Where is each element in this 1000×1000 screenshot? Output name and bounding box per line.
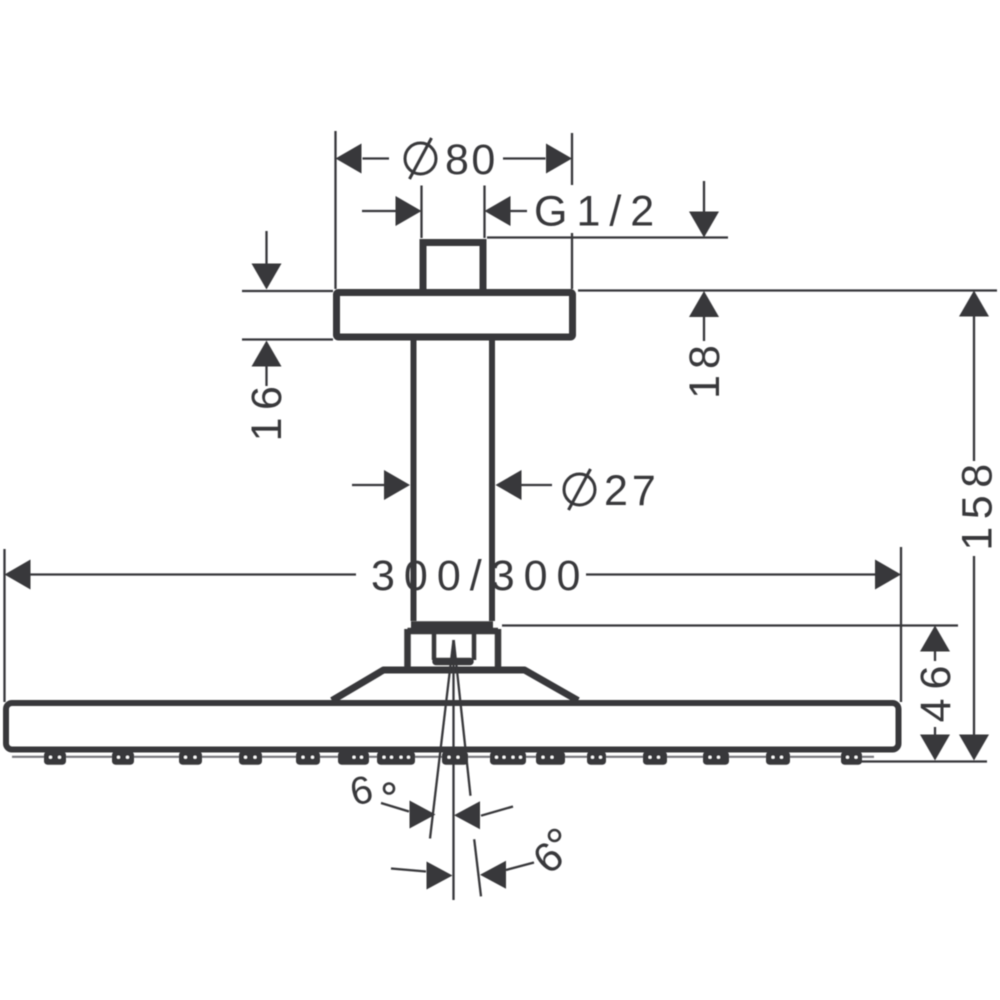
dim 18 arrow bottom: [689, 291, 719, 317]
dim 46 arrow top: [920, 626, 950, 652]
svg-text:46: 46: [912, 657, 960, 723]
dim diam80 arrow left: [336, 144, 362, 174]
svg-text:18: 18: [681, 339, 729, 399]
spray axis center line: [452, 640, 454, 900]
6 deg upper arrow left: [410, 801, 436, 829]
dim 16 arrow bottom: [252, 341, 282, 367]
dim 16 ext lines: [242, 290, 333, 292]
dim 16 arrow top: [252, 264, 282, 290]
dim 158 line: [973, 316, 975, 461]
svg-text:16: 16: [243, 379, 291, 442]
dim 46 arrow bottom: [920, 735, 950, 761]
nozzle rail: [12, 756, 874, 758]
pipe left wall: [411, 340, 417, 621]
dim 158 arrow bottom: [959, 735, 989, 761]
nozzle 6: [338, 752, 369, 765]
dimension graphics: [5, 131, 998, 900]
6 deg upper arrow right: [454, 801, 480, 829]
dim 18 leader lines: [703, 181, 705, 213]
nozzle 14: [766, 752, 790, 765]
6 deg lower arrow right: [480, 861, 506, 889]
nut inner cup: [436, 658, 470, 666]
dim diam27 arrow left: [384, 470, 410, 500]
spray axis left 6 deg line: [430, 640, 454, 839]
nozzle 9: [490, 752, 526, 765]
pipe flange: [411, 621, 493, 629]
dim 46 ext line: [502, 624, 958, 626]
6 deg lower arrow left: [427, 862, 453, 890]
nozzle 15: [841, 752, 862, 765]
svg-text:80: 80: [445, 136, 498, 184]
nozzle 2: [112, 752, 134, 765]
nozzle 5: [296, 752, 320, 765]
nozzles: [44, 752, 862, 765]
nozzle 8: [442, 752, 468, 765]
dim 300/300 line: [30, 573, 356, 575]
svg-text:6: 6: [346, 768, 378, 815]
dim Ø80 ext lines: [334, 131, 336, 289]
svg-text:27: 27: [604, 467, 660, 515]
nozzle 12: [643, 752, 667, 765]
svg-text:G1/2: G1/2: [534, 188, 663, 236]
dim 300/300 arrow left: [5, 560, 31, 590]
arrowheads: [5, 144, 990, 890]
dim G1/2 arrow right: [485, 196, 511, 226]
dimension texts: [243, 136, 1000, 722]
dim 16 leader lines: [265, 231, 267, 266]
dim diam80 arrow right: [546, 144, 572, 174]
nozzle 1: [44, 752, 66, 765]
dim 158 bottom ext line: [842, 760, 987, 762]
dim 300/300 arrow right: [875, 560, 901, 590]
dim diam27 arrow right: [496, 470, 522, 500]
dim G1/2 line: [362, 210, 396, 212]
svg-text:6: 6: [524, 831, 574, 882]
dim Ø80 line: [363, 157, 390, 159]
spray axis right 6 deg line: [454, 640, 471, 796]
connector nut: [408, 629, 499, 667]
nozzle 4: [239, 752, 262, 765]
ceiling connector square G1/2: [423, 243, 483, 292]
shower head body: [6, 703, 899, 750]
ceiling plate escutcheon: [337, 293, 573, 338]
6 deg lower leader lines: [391, 869, 426, 872]
nozzle 7: [377, 752, 415, 765]
label Ø27: [564, 469, 595, 510]
nozzle 10: [536, 752, 565, 765]
dim Ø27 line: [352, 484, 385, 486]
svg-text:300/300: 300/300: [371, 552, 589, 600]
nozzle 3: [179, 752, 202, 765]
svg-text:158: 158: [954, 456, 1000, 550]
dim G1/2 arrow left: [396, 196, 422, 226]
dim 158 arrow top: [959, 291, 989, 317]
nozzle 13: [703, 752, 729, 765]
6 deg upper leader lines: [381, 803, 409, 812]
cone: [332, 670, 578, 701]
dim G1/2 ext lines: [420, 186, 422, 239]
dim 18 ext lines: [487, 236, 728, 238]
dim 18 arrow top: [689, 212, 719, 238]
nut inner walls: [434, 632, 474, 660]
label Ø80: [405, 138, 436, 179]
dim 300/300 ext lines: [3, 549, 5, 702]
dim 46 line: [934, 651, 936, 661]
pipe right wall: [489, 340, 495, 621]
nozzle 11: [587, 752, 606, 765]
